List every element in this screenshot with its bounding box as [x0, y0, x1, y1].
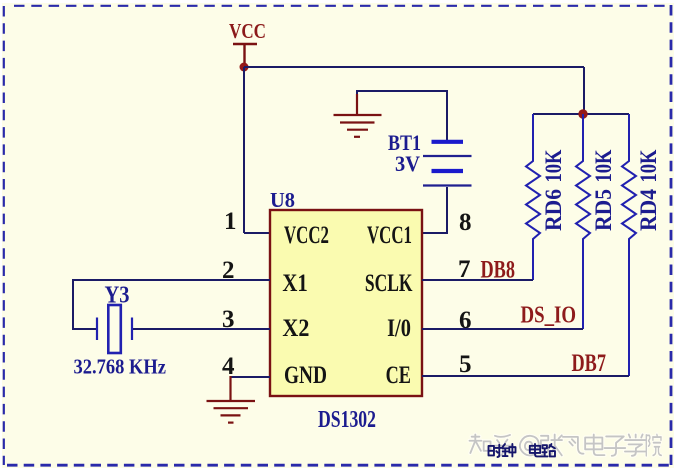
ground at pin 4: [207, 376, 256, 423]
resistor RD5 10K: [576, 114, 616, 329]
wire pin 6 net DS_IO: [422, 328, 583, 330]
wire crystal to pin 3: [133, 328, 270, 330]
ground near battery: [334, 94, 382, 137]
crystal Y3 32.768 KHz: [74, 283, 167, 379]
svg-text:DS1302: DS1302: [318, 407, 376, 433]
svg-text:32.768 KHz: 32.768 KHz: [74, 355, 167, 379]
resistor RD4 10K: [622, 114, 661, 376]
svg-text:DB8: DB8: [481, 257, 516, 284]
wire VCC horizontal top: [244, 66, 584, 68]
svg-text:RD5: RD5: [591, 189, 616, 231]
svg-text:X1: X1: [282, 270, 307, 297]
wire battery top to ground: [357, 91, 447, 140]
svg-text:5: 5: [459, 351, 472, 378]
ic U8 DS1302 body: [270, 210, 422, 396]
wire battery bottom to pin 8: [422, 187, 447, 233]
svg-text:RD6: RD6: [541, 189, 566, 231]
wire pin 2 to crystal: [73, 280, 270, 329]
svg-text:DS_IO: DS_IO: [521, 303, 577, 329]
svg-text:I/0: I/0: [387, 315, 411, 342]
power port VCC: [229, 19, 266, 64]
svg-text:10K: 10K: [636, 149, 661, 182]
junction at VCC node: [240, 63, 249, 72]
svg-text:7: 7: [458, 256, 471, 283]
wire VCC down to resistor rail: [583, 67, 585, 113]
svg-text:U8: U8: [270, 188, 295, 212]
resistor RD6 10K: [526, 114, 566, 280]
resistor rail wire: [533, 113, 629, 115]
svg-text:DB7: DB7: [572, 350, 607, 377]
svg-text:10K: 10K: [541, 149, 566, 182]
wire VCC down to pin 1: [243, 67, 245, 233]
svg-text:RD4: RD4: [636, 189, 661, 231]
svg-text:8: 8: [459, 209, 472, 236]
svg-text:10K: 10K: [591, 149, 616, 182]
junction at resistor rail: [578, 109, 587, 118]
wire pin 7 net DB8: [422, 279, 533, 281]
svg-text:3V: 3V: [395, 151, 420, 176]
svg-text:GND: GND: [284, 362, 327, 389]
svg-text:1: 1: [224, 208, 237, 235]
svg-text:SCLK: SCLK: [365, 270, 413, 297]
svg-text:X2: X2: [282, 315, 309, 342]
battery BT1 3V: [388, 130, 472, 186]
wire pin 1: [244, 232, 270, 234]
svg-text:VCC1: VCC1: [367, 222, 412, 249]
svg-text:CE: CE: [386, 362, 411, 389]
svg-text:VCC: VCC: [229, 19, 266, 43]
svg-text:VCC2: VCC2: [284, 222, 329, 249]
wire pin 4 to ground: [231, 376, 271, 378]
wire pin 5 net DB7: [422, 375, 629, 377]
svg-text:4: 4: [222, 353, 235, 380]
svg-text:Y3: Y3: [105, 283, 130, 309]
